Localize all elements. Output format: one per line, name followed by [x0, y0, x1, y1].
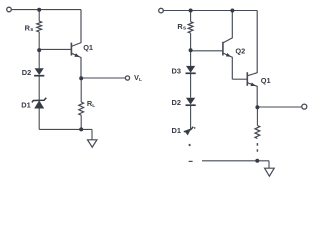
svg-text:VL: VL [134, 73, 142, 83]
svg-text:RL: RL [87, 99, 95, 109]
svg-text:D3: D3 [172, 66, 181, 75]
svg-text:Q2: Q2 [235, 46, 245, 55]
svg-text:Rs: Rs [25, 23, 34, 33]
svg-text:D1: D1 [21, 100, 30, 109]
svg-text:Q1: Q1 [83, 43, 93, 52]
svg-text:D2: D2 [172, 98, 181, 107]
svg-text:Q1: Q1 [261, 76, 271, 85]
svg-text:Rs: Rs [177, 22, 186, 32]
svg-text:D2: D2 [22, 68, 31, 77]
svg-text:D1: D1 [172, 126, 181, 135]
